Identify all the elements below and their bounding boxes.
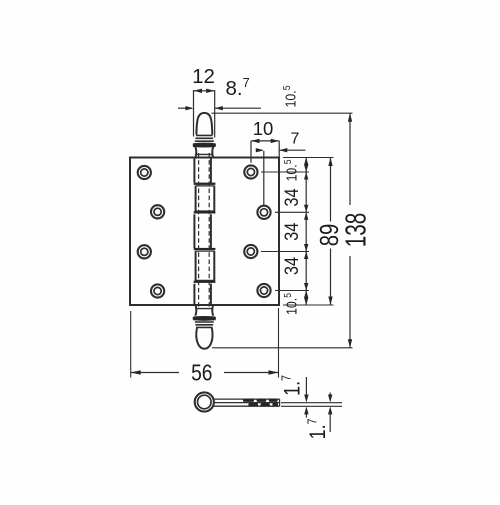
side view knuckle segments bottom leaf: [248, 403, 278, 406]
knuckle barrel segment K1: [194, 158, 211, 183]
svg-text:12: 12: [192, 65, 215, 88]
screw hole left leaf A2: [138, 245, 151, 258]
dimension 138 label: [340, 213, 372, 247]
dimension 89 label: [315, 224, 344, 247]
svg-text:34: 34: [281, 188, 303, 206]
dimension 1.7 second label: [305, 419, 331, 440]
witness lines right chain: [261, 158, 334, 306]
side view knuckle segments top leaf: [243, 399, 278, 402]
svg-text:7: 7: [291, 131, 300, 148]
finial bottom acorn: [196, 328, 212, 349]
knuckle barrel segment K4: [196, 251, 215, 281]
screw hole right leaf R3: [244, 245, 257, 258]
knuckle barrel segment K2: [196, 186, 215, 212]
washer joint W3: [194, 248, 216, 250]
knuckle barrel segment K5: [194, 284, 211, 305]
dimension 7 arrows (outside pointing in): [256, 148, 306, 206]
svg-text:56: 56: [191, 360, 212, 386]
dimension 56 label: [191, 360, 212, 386]
svg-text:138: 138: [340, 213, 372, 247]
finial bottom collar: [193, 316, 216, 320]
dimension 1.7 second (right): [328, 393, 332, 433]
hidden pin line left (dashed): [198, 153, 200, 309]
svg-text:1.7: 1.7: [279, 375, 305, 396]
svg-text:1.7: 1.7: [305, 419, 331, 440]
knuckle barrel segment K3: [194, 214, 211, 248]
finial bottom neck: [195, 305, 213, 316]
screw hole left leaf A1: [138, 166, 151, 179]
dimension 1.7 first (left): [304, 377, 308, 418]
hidden pin line right (dashed): [208, 153, 210, 309]
svg-text:10.5: 10.5: [282, 86, 299, 108]
finial top collar: [193, 143, 216, 147]
dimension 138 line: [348, 113, 352, 348]
screw hole right leaf R2: [257, 206, 270, 219]
svg-text:10.5: 10.5: [283, 293, 300, 315]
chain label 10.5 bottom: [283, 293, 300, 315]
chain label 34 second: [281, 223, 303, 241]
screw hole left leaf B2: [151, 284, 164, 297]
witness line bottom of pin (for 138): [212, 347, 353, 349]
witness line top of pin (for 138): [212, 112, 353, 114]
svg-text:8.7: 8.7: [226, 76, 250, 100]
hinge leaf plate (front view body): [130, 158, 279, 306]
washer joint W1: [194, 183, 216, 185]
svg-text:34: 34: [281, 257, 303, 275]
finial top neck: [195, 147, 213, 158]
screw hole left leaf B1: [151, 205, 164, 218]
finial bottom rings: [195, 322, 214, 327]
dimension 56 line with arrows: [131, 370, 279, 375]
dimension 8.7 arrows (outside pointing in): [178, 106, 261, 110]
screw hole right leaf R4: [257, 284, 270, 297]
dimension 10 line with arrows: [251, 139, 279, 163]
chain label 34 third: [281, 257, 303, 275]
side view barrel ring: [195, 392, 214, 411]
label 10.5 top: [282, 86, 299, 108]
finial top dome: [196, 113, 212, 135]
washer joint W4: [194, 281, 216, 283]
side view leaves (edge-on plates): [214, 399, 280, 406]
svg-text:34: 34: [281, 223, 303, 241]
svg-text:10.5: 10.5: [283, 160, 300, 182]
dimension 12 label: [192, 65, 215, 88]
dimension 89 line: [328, 158, 332, 306]
dimension 10 label: [253, 118, 274, 139]
dimension 7 label: [291, 131, 300, 148]
dimension 12 extension lines: [194, 90, 215, 138]
svg-text:89: 89: [315, 224, 344, 247]
finial top rings: [195, 135, 214, 141]
side view thickness extension lines: [281, 403, 342, 407]
svg-text:10: 10: [253, 118, 274, 139]
chain dimension line (10.5/34/34/34/10.5): [304, 158, 308, 306]
dimension 8.7 label: [226, 76, 250, 100]
screw hole right leaf R1: [244, 165, 257, 178]
dimension 56 extension lines: [131, 308, 279, 378]
washer joint W2: [194, 211, 216, 213]
dimension 12 line with arrows: [194, 89, 215, 93]
dimension 1.7 first label: [279, 375, 305, 396]
chain label 34 first: [281, 188, 303, 206]
chain label 10.5 top: [283, 160, 300, 182]
